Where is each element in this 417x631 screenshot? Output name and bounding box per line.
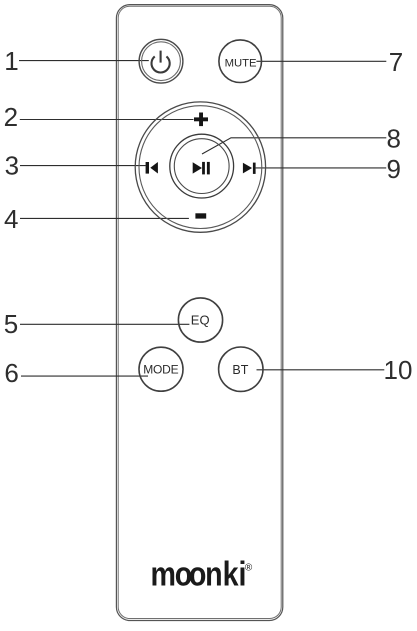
power button inner ring [142,42,181,81]
leader line 8 (bent) [202,138,386,154]
svg-text:2: 2 [4,102,18,132]
remote body outer outline [116,5,282,621]
svg-text:®: ® [245,563,253,574]
plus icon [194,113,208,127]
svg-text:3: 3 [5,150,19,180]
svg-text:MUTE: MUTE [225,57,257,69]
power icon arc [151,56,169,72]
leader line 6 [21,375,148,377]
prev icon [146,162,158,174]
svg-text:8: 8 [386,124,400,154]
leader line 7 [256,60,386,62]
BT button ring [219,347,263,391]
EQ button ring [178,298,222,342]
leader line 2 [20,119,194,121]
svg-text:7: 7 [389,47,403,77]
center button outer ring [170,134,234,198]
svg-text:4: 4 [4,204,18,234]
next icon [243,163,256,174]
svg-text:5: 5 [4,309,18,339]
leader line 9 [256,167,387,169]
svg-text:BT: BT [232,363,248,377]
svg-text:10: 10 [384,355,413,385]
MODE button ring [139,347,183,391]
leader line 5 [20,323,189,325]
svg-text:moonki: moonki [151,556,247,594]
svg-text:1: 1 [4,46,18,76]
leader line 4 [20,217,189,219]
leader line 1 [19,60,149,62]
center button inner ring [174,139,229,194]
power button outer ring [139,39,183,83]
leader line 3 [20,165,146,167]
D-pad outer ring [135,102,265,232]
D-pad inner ring [139,106,262,229]
remote body inner outline [118,6,281,618]
power icon bar [160,51,162,63]
leader line 10 [257,369,385,371]
minus icon [195,213,206,218]
svg-text:6: 6 [4,358,18,388]
svg-text:MODE: MODE [143,363,178,377]
svg-text:EQ: EQ [191,313,210,328]
MUTE button ring [219,40,262,83]
play/pause icon [193,162,210,175]
svg-text:9: 9 [386,154,400,184]
